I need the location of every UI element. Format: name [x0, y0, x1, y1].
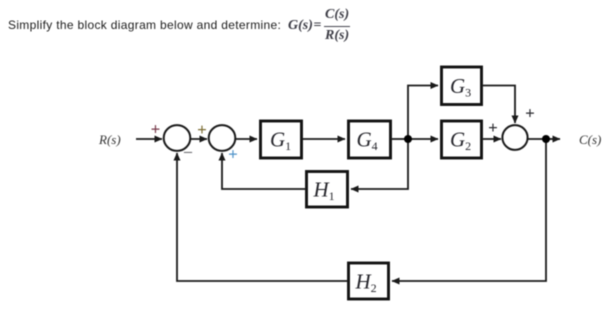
- block G3: [442, 67, 482, 105]
- block G1: [261, 121, 302, 158]
- svg-text:C(s): C(s): [579, 132, 601, 147]
- svg-text:R(s): R(s): [98, 132, 121, 147]
- wire G1 to G4: [302, 138, 345, 140]
- formula fraction C(s)/R(s): [324, 8, 350, 43]
- wire G2 to S3: [483, 138, 501, 140]
- title text: [8, 18, 281, 32]
- svg-text:+: +: [197, 120, 207, 139]
- svg-text:+: +: [228, 145, 238, 164]
- wire G3 to S3 top: [483, 86, 515, 124]
- wire output node down to H2: [392, 139, 546, 281]
- summing junction S2: [209, 125, 236, 151]
- wire branch node A down to H1: [351, 139, 408, 189]
- svg-text:+: +: [525, 104, 535, 123]
- output node dot: [542, 135, 550, 143]
- block G2: [442, 121, 482, 158]
- wire H2 to S1 bottom: [177, 153, 347, 281]
- wire S3 to output node: [528, 138, 547, 140]
- wire S2 to G1: [235, 138, 257, 140]
- wire G4 to node A: [392, 138, 408, 140]
- svg-text:–: –: [183, 143, 193, 160]
- wire R(s) input: [136, 138, 162, 140]
- formula G(s)=: [288, 19, 321, 33]
- wire S1 to S2: [190, 138, 207, 140]
- node A junction dot: [404, 135, 412, 143]
- wire output node to C(s): [546, 138, 560, 140]
- block H1: [307, 172, 348, 208]
- wire node A to G2: [408, 138, 438, 140]
- summing junction S1: [164, 125, 191, 151]
- block H2: [349, 263, 389, 299]
- svg-text:+: +: [488, 118, 498, 137]
- svg-text:+: +: [151, 120, 161, 139]
- block G4: [349, 121, 391, 158]
- wire branch node A up to G3: [408, 86, 438, 140]
- wire H1 to S2 bottom: [222, 153, 305, 189]
- summing junction S3: [502, 125, 527, 150]
